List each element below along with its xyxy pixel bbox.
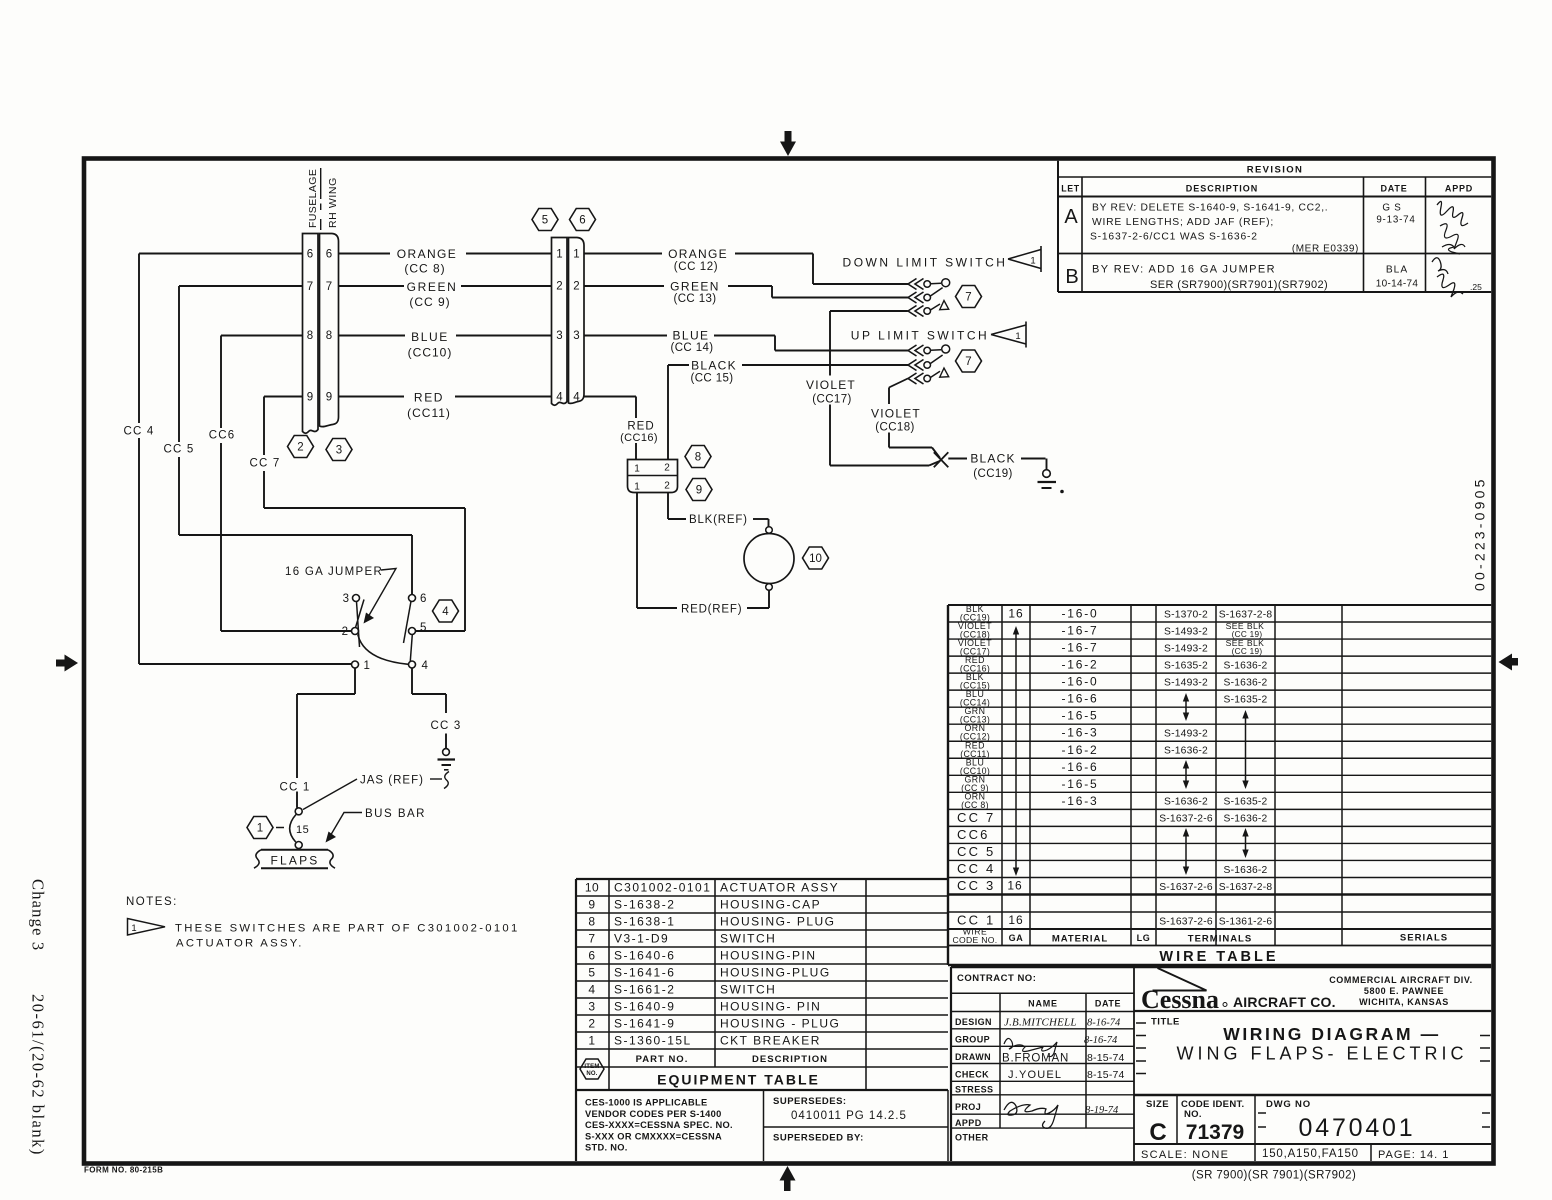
- svg-text:G S: G S: [1382, 203, 1401, 214]
- svg-text:ITEM: ITEM: [584, 1064, 599, 1070]
- svg-text:VIOLET: VIOLET: [871, 407, 921, 421]
- svg-text:TITLE: TITLE: [1151, 1017, 1180, 1028]
- svg-text:JAS (REF): JAS (REF): [360, 775, 424, 787]
- svg-text:2: 2: [573, 281, 579, 293]
- svg-text:2: 2: [556, 281, 562, 293]
- svg-text:(CC 12): (CC 12): [674, 261, 718, 273]
- svg-text:HOUSING-CAP: HOUSING-CAP: [720, 898, 821, 912]
- svg-text:8: 8: [326, 330, 332, 342]
- svg-text:DESCRIPTION: DESCRIPTION: [1186, 184, 1259, 194]
- svg-text:STD. NO.: STD. NO.: [585, 1143, 628, 1153]
- svg-text:NO.: NO.: [586, 1071, 597, 1077]
- svg-text:3: 3: [588, 1000, 595, 1014]
- svg-text:GA: GA: [1009, 933, 1024, 943]
- svg-text:4: 4: [588, 983, 595, 997]
- svg-text:RED: RED: [627, 421, 654, 433]
- svg-text:6: 6: [307, 249, 313, 261]
- svg-text:-16-2: -16-2: [1061, 658, 1098, 672]
- svg-text:9: 9: [588, 898, 595, 912]
- svg-text:B: B: [1065, 266, 1078, 288]
- svg-text:SERIALS: SERIALS: [1400, 933, 1448, 944]
- svg-text:8-15-74: 8-15-74: [1087, 1052, 1125, 1064]
- svg-text:APPD: APPD: [955, 1118, 982, 1128]
- svg-text:MATERIAL: MATERIAL: [1052, 934, 1108, 945]
- svg-text:S-1637-2-6: S-1637-2-6: [1159, 882, 1213, 893]
- svg-text:ORANGE: ORANGE: [397, 247, 457, 261]
- svg-text:1: 1: [556, 249, 562, 261]
- svg-text:NOTES:: NOTES:: [126, 896, 178, 908]
- svg-text:S-1636-2: S-1636-2: [1164, 797, 1208, 808]
- svg-text:WICHITA, KANSAS: WICHITA, KANSAS: [1359, 997, 1449, 1007]
- svg-text:GREEN: GREEN: [407, 280, 458, 294]
- svg-text:A: A: [1064, 206, 1078, 228]
- svg-text:SUPERSEDED BY:: SUPERSEDED BY:: [773, 1133, 864, 1144]
- svg-text:J.B.MITCHELL: J.B.MITCHELL: [1004, 1017, 1077, 1029]
- svg-text:8-16-74: 8-16-74: [1087, 1018, 1121, 1029]
- svg-text:TERMINALS: TERMINALS: [1188, 934, 1252, 945]
- svg-text:WIRE TABLE: WIRE TABLE: [1159, 949, 1278, 965]
- svg-text:(CC 9): (CC 9): [409, 295, 450, 309]
- svg-text:8-16-74: 8-16-74: [1084, 1035, 1118, 1046]
- svg-text:CC6: CC6: [957, 827, 990, 842]
- svg-text:4: 4: [422, 660, 429, 672]
- svg-text:ORANGE: ORANGE: [668, 247, 728, 261]
- svg-text:BLA: BLA: [1386, 265, 1408, 276]
- svg-text:SCALE: NONE: SCALE: NONE: [1141, 1149, 1229, 1161]
- svg-text:CC 5: CC 5: [163, 444, 194, 456]
- svg-text:S-XXX OR CMXXXX=CESSNA: S-XXX OR CMXXXX=CESSNA: [585, 1131, 722, 1141]
- svg-text:PAGE: 14. 1: PAGE: 14. 1: [1378, 1149, 1449, 1161]
- svg-text:S-1361-2-6: S-1361-2-6: [1219, 916, 1273, 927]
- svg-text:3: 3: [573, 330, 579, 342]
- svg-text:9: 9: [326, 392, 332, 404]
- svg-text:RH WING: RH WING: [327, 177, 339, 228]
- svg-text:S-1493-2: S-1493-2: [1164, 643, 1208, 654]
- svg-text:S-1493-2: S-1493-2: [1164, 626, 1208, 637]
- svg-text:BLK(REF): BLK(REF): [689, 514, 748, 526]
- svg-text:GREEN: GREEN: [670, 280, 720, 294]
- svg-text:WIRE LENGTHS; ADD JAF (REF);: WIRE LENGTHS; ADD JAF (REF);: [1092, 217, 1274, 228]
- svg-text:1: 1: [573, 249, 579, 261]
- svg-text:LG: LG: [1137, 933, 1151, 943]
- svg-text:DESIGN: DESIGN: [955, 1017, 992, 1027]
- svg-text:8: 8: [695, 452, 701, 464]
- svg-text:SER (SR7900)(SR7901)(SR7902): SER (SR7900)(SR7901)(SR7902): [1150, 279, 1328, 291]
- svg-text:CC 1: CC 1: [957, 913, 995, 928]
- svg-text:THESE SWITCHES ARE PART OF C30: THESE SWITCHES ARE PART OF C301002-0101: [175, 923, 520, 935]
- svg-text:16: 16: [1008, 913, 1023, 927]
- svg-text:AIRCRAFT CO.: AIRCRAFT CO.: [1233, 994, 1336, 1010]
- svg-text:(CC19): (CC19): [973, 468, 1012, 480]
- svg-text:.25: .25: [1470, 282, 1482, 292]
- svg-text:S-1370-2: S-1370-2: [1164, 609, 1208, 620]
- svg-text:HOUSING- PIN: HOUSING- PIN: [720, 1000, 821, 1014]
- svg-text:S-1635-2: S-1635-2: [1224, 694, 1268, 705]
- svg-text:00-223-0905: 00-223-0905: [1472, 476, 1488, 591]
- svg-text:FLAPS: FLAPS: [270, 854, 319, 868]
- svg-text:5: 5: [420, 622, 426, 634]
- svg-text:UP LIMIT SWITCH: UP LIMIT SWITCH: [851, 329, 989, 343]
- svg-text:71379: 71379: [1186, 1121, 1244, 1144]
- svg-text:4: 4: [556, 392, 563, 404]
- svg-text:(CC17): (CC17): [812, 394, 851, 406]
- svg-text:0410011 PG 14.2.5: 0410011 PG 14.2.5: [791, 1110, 907, 1122]
- svg-text:SIZE: SIZE: [1146, 1099, 1169, 1110]
- svg-text:S-1637-2-6: S-1637-2-6: [1159, 814, 1213, 825]
- svg-text:-16-3: -16-3: [1061, 794, 1098, 808]
- svg-text:B.FROMAN: B.FROMAN: [1002, 1053, 1069, 1065]
- svg-text:HOUSING-PIN: HOUSING-PIN: [720, 949, 817, 963]
- svg-text:20-61/(20-62 blank): 20-61/(20-62 blank): [29, 994, 48, 1156]
- svg-text:3: 3: [343, 593, 349, 605]
- svg-text:S-1638-2: S-1638-2: [614, 898, 675, 912]
- svg-text:CODE NO.: CODE NO.: [953, 935, 998, 945]
- svg-text:150,A150,FA150: 150,A150,FA150: [1262, 1148, 1359, 1160]
- svg-text:2: 2: [588, 1017, 595, 1031]
- svg-text:3: 3: [556, 330, 562, 342]
- svg-text:J.YOUEL: J.YOUEL: [1008, 1069, 1062, 1081]
- svg-text:BY REV: DELETE S-1640-9, S-164: BY REV: DELETE S-1640-9, S-1641-9, CC2,.: [1092, 203, 1328, 214]
- svg-text:4: 4: [573, 392, 580, 404]
- svg-text:PART NO.: PART NO.: [636, 1054, 689, 1065]
- svg-text:2: 2: [297, 442, 303, 454]
- svg-text:(CC 14): (CC 14): [670, 342, 713, 354]
- svg-text:S-1637-2-8: S-1637-2-8: [1219, 609, 1273, 620]
- svg-text:COMMERCIAL AIRCRAFT DIV.: COMMERCIAL AIRCRAFT DIV.: [1329, 975, 1473, 985]
- svg-text:S-1360-15L: S-1360-15L: [614, 1034, 692, 1048]
- svg-text:1: 1: [588, 1034, 595, 1048]
- svg-text:-16-3: -16-3: [1061, 726, 1098, 740]
- svg-text:GROUP: GROUP: [955, 1035, 990, 1045]
- svg-text:CC6: CC6: [209, 430, 236, 442]
- svg-text:BLACK: BLACK: [970, 452, 1015, 466]
- svg-text:(CC18): (CC18): [875, 422, 914, 434]
- svg-text:LET: LET: [1061, 184, 1079, 194]
- svg-text:(CC16): (CC16): [620, 432, 658, 444]
- svg-text:7: 7: [965, 292, 971, 304]
- svg-text:S-1637-2-6: S-1637-2-6: [1159, 916, 1213, 927]
- svg-text:CC 3: CC 3: [957, 878, 995, 893]
- svg-text:BUS BAR: BUS BAR: [365, 808, 426, 820]
- svg-text:WIRING DIAGRAM —: WIRING DIAGRAM —: [1223, 1024, 1441, 1044]
- svg-text:(CC 13): (CC 13): [673, 293, 716, 305]
- svg-text:1: 1: [1030, 256, 1035, 267]
- svg-text:(CC 8): (CC 8): [961, 800, 989, 810]
- svg-text:S-1636-2: S-1636-2: [1164, 746, 1208, 757]
- svg-text:Cessna: Cessna: [1141, 985, 1219, 1014]
- svg-text:1: 1: [257, 823, 263, 835]
- svg-text:FORM NO. 80-215B: FORM NO. 80-215B: [84, 1166, 163, 1175]
- svg-text:-16-0: -16-0: [1061, 607, 1098, 621]
- svg-text:S-1635-2: S-1635-2: [1164, 660, 1208, 671]
- svg-text:10: 10: [809, 553, 822, 565]
- svg-text:-16-7: -16-7: [1061, 641, 1098, 655]
- svg-text:4: 4: [442, 606, 449, 618]
- svg-text:0470401: 0470401: [1299, 1114, 1416, 1142]
- svg-text:8: 8: [307, 330, 313, 342]
- svg-text:HOUSING- PLUG: HOUSING- PLUG: [720, 915, 836, 929]
- svg-text:16: 16: [1007, 879, 1022, 893]
- svg-text:S-1661-2: S-1661-2: [614, 983, 675, 997]
- svg-text:-16-5: -16-5: [1061, 777, 1098, 791]
- svg-text:(CC10): (CC10): [408, 346, 453, 360]
- svg-text:2: 2: [664, 463, 670, 474]
- svg-text:DWG NO: DWG NO: [1266, 1099, 1311, 1110]
- svg-text:3: 3: [336, 445, 342, 457]
- svg-text:8-19-74: 8-19-74: [1085, 1105, 1119, 1116]
- svg-text:10-14-74: 10-14-74: [1376, 279, 1419, 290]
- svg-text:HOUSING-PLUG: HOUSING-PLUG: [720, 966, 831, 980]
- svg-text:VENDOR CODES PER S-1400: VENDOR CODES PER S-1400: [585, 1109, 722, 1119]
- svg-text:S-1640-6: S-1640-6: [614, 949, 675, 963]
- svg-text:NO.: NO.: [1184, 1109, 1202, 1120]
- svg-text:2: 2: [342, 626, 348, 638]
- svg-text:S-1493-2: S-1493-2: [1164, 729, 1208, 740]
- svg-text:RED(REF): RED(REF): [681, 604, 742, 616]
- svg-text:CC 4: CC 4: [957, 861, 995, 876]
- svg-text:5800 E. PAWNEE: 5800 E. PAWNEE: [1364, 986, 1444, 996]
- svg-text:7: 7: [588, 932, 595, 946]
- svg-text:C301002-0101: C301002-0101: [614, 881, 711, 895]
- svg-text:PROJ: PROJ: [955, 1102, 981, 1112]
- svg-text:CES-XXXX=CESSNA SPEC. NO.: CES-XXXX=CESSNA SPEC. NO.: [585, 1120, 733, 1130]
- svg-text:CES-1000 IS APPLICABLE: CES-1000 IS APPLICABLE: [585, 1098, 708, 1108]
- svg-text:DATE: DATE: [1095, 999, 1121, 1009]
- svg-text:16: 16: [1008, 607, 1023, 621]
- svg-text:S-1637-2-8: S-1637-2-8: [1219, 882, 1273, 893]
- svg-text:6: 6: [420, 593, 426, 605]
- svg-text:(CC 15): (CC 15): [690, 373, 733, 385]
- svg-text:S-1635-2: S-1635-2: [1224, 797, 1268, 808]
- svg-text:REVISION: REVISION: [1247, 165, 1304, 176]
- svg-text:8-15-74: 8-15-74: [1087, 1069, 1125, 1081]
- svg-text:7: 7: [326, 281, 332, 293]
- svg-text:NAME: NAME: [1028, 999, 1058, 1009]
- svg-text:ACTUATOR ASSY.: ACTUATOR ASSY.: [176, 938, 304, 950]
- svg-text:WING FLAPS- ELECTRIC: WING FLAPS- ELECTRIC: [1176, 1044, 1467, 1064]
- svg-text:STRESS: STRESS: [955, 1084, 993, 1094]
- svg-text:9: 9: [307, 392, 313, 404]
- svg-text:CC 1: CC 1: [279, 782, 310, 794]
- svg-text:(CC11): (CC11): [407, 406, 451, 420]
- svg-text:9-13-74: 9-13-74: [1376, 215, 1415, 226]
- svg-text:(CC 19): (CC 19): [1232, 647, 1263, 656]
- svg-text:S-1641-9: S-1641-9: [614, 1017, 675, 1031]
- svg-text:-16-6: -16-6: [1061, 692, 1098, 706]
- svg-text:Change 3: Change 3: [29, 879, 48, 951]
- svg-text:APPD: APPD: [1445, 184, 1473, 194]
- svg-text:S-1636-2: S-1636-2: [1224, 660, 1268, 671]
- svg-text:S-1640-9: S-1640-9: [614, 1000, 675, 1014]
- svg-text:DOWN LIMIT SWITCH: DOWN LIMIT SWITCH: [843, 256, 1008, 270]
- svg-text:(SR 7900)(SR 7901)(SR7902): (SR 7900)(SR 7901)(SR7902): [1192, 1170, 1356, 1182]
- svg-text:-16-2: -16-2: [1061, 743, 1098, 757]
- svg-text:BLACK: BLACK: [691, 359, 737, 373]
- svg-text:6: 6: [579, 215, 585, 227]
- svg-text:CC 7: CC 7: [957, 810, 995, 825]
- svg-text:7: 7: [965, 356, 971, 368]
- svg-text:S-1638-1: S-1638-1: [614, 915, 675, 929]
- svg-text:SUPERSEDES:: SUPERSEDES:: [773, 1096, 847, 1107]
- svg-text:5: 5: [542, 215, 548, 227]
- svg-text:S-1493-2: S-1493-2: [1164, 677, 1208, 688]
- svg-text:EQUIPMENT TABLE: EQUIPMENT TABLE: [657, 1072, 820, 1088]
- svg-text:9: 9: [696, 485, 702, 497]
- svg-text:(MER E0339): (MER E0339): [1292, 244, 1359, 255]
- svg-text:BY REV: ADD 16 GA JUMPER: BY REV: ADD 16 GA JUMPER: [1092, 264, 1276, 276]
- svg-text:SWITCH: SWITCH: [720, 932, 776, 946]
- svg-text:DESCRIPTION: DESCRIPTION: [752, 1054, 828, 1065]
- svg-text:1: 1: [131, 923, 136, 934]
- svg-text:VIOLET: VIOLET: [806, 378, 856, 392]
- svg-text:RED: RED: [414, 391, 444, 405]
- svg-text:S-1637-2-6/CC1 WAS S-1636-2: S-1637-2-6/CC1 WAS S-1636-2: [1090, 232, 1258, 243]
- svg-text:-16-6: -16-6: [1061, 760, 1098, 774]
- svg-text:SWITCH: SWITCH: [720, 983, 776, 997]
- svg-text:5: 5: [588, 966, 595, 980]
- svg-text:CC 7: CC 7: [249, 458, 280, 470]
- svg-text:BLUE: BLUE: [673, 329, 710, 343]
- svg-text:-16-0: -16-0: [1061, 675, 1098, 689]
- svg-text:1: 1: [634, 464, 640, 475]
- svg-text:CC 5: CC 5: [957, 844, 995, 859]
- svg-text:1: 1: [1015, 331, 1020, 342]
- svg-text:ACTUATOR ASSY: ACTUATOR ASSY: [720, 881, 839, 895]
- svg-text:OTHER: OTHER: [955, 1133, 989, 1143]
- svg-text:7: 7: [307, 281, 313, 293]
- svg-text:CONTRACT NO:: CONTRACT NO:: [957, 973, 1036, 984]
- svg-text:16 GA JUMPER: 16 GA JUMPER: [285, 566, 383, 578]
- svg-text:6: 6: [326, 249, 332, 261]
- svg-text:BLUE: BLUE: [411, 330, 449, 344]
- svg-text:DATE: DATE: [1380, 184, 1407, 194]
- svg-text:S-1636-2: S-1636-2: [1224, 814, 1268, 825]
- svg-text:1: 1: [634, 482, 640, 493]
- svg-text:HOUSING - PLUG: HOUSING - PLUG: [720, 1017, 840, 1031]
- svg-text:S-1636-2: S-1636-2: [1224, 865, 1268, 876]
- svg-text:10: 10: [585, 881, 599, 895]
- svg-text:DRAWN: DRAWN: [955, 1052, 991, 1062]
- svg-text:C: C: [1149, 1119, 1166, 1146]
- svg-text:FUSELAGE: FUSELAGE: [307, 169, 319, 228]
- svg-text:CKT BREAKER: CKT BREAKER: [720, 1034, 821, 1048]
- svg-text:V3-1-D9: V3-1-D9: [614, 932, 669, 946]
- svg-text:S-1641-6: S-1641-6: [614, 966, 675, 980]
- svg-text:S-1636-2: S-1636-2: [1224, 677, 1268, 688]
- svg-text:15: 15: [296, 824, 309, 836]
- svg-text:CHECK: CHECK: [955, 1070, 989, 1080]
- svg-text:8: 8: [588, 915, 595, 929]
- svg-text:1: 1: [364, 660, 370, 672]
- svg-text:-16-5: -16-5: [1061, 709, 1098, 723]
- svg-text:6: 6: [588, 949, 595, 963]
- svg-text:2: 2: [664, 481, 670, 492]
- svg-text:CC 3: CC 3: [430, 720, 461, 732]
- svg-text:CC 4: CC 4: [123, 426, 154, 438]
- svg-text:(CC 8): (CC 8): [404, 262, 445, 276]
- svg-text:-16-7: -16-7: [1061, 624, 1098, 638]
